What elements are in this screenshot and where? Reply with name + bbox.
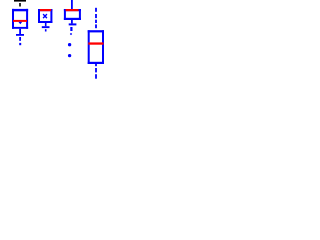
boxplot 3 flier dot low <box>68 54 71 57</box>
boxplot 3 lower cap <box>69 23 77 25</box>
boxplot 2 mean marker x (blue) <box>43 14 47 18</box>
boxplot 1 median (red) <box>13 20 27 22</box>
boxplot 3 box top edge (blue) <box>64 9 81 11</box>
boxplot 4 box edges (blue) <box>88 30 104 64</box>
boxplot 4 median (red) <box>88 42 103 44</box>
boxplot 2 lower whisker stem <box>45 23 47 26</box>
boxplot 4 upper whisker dashes (blue) <box>95 8 97 28</box>
boxplot 1 box fill <box>12 9 28 29</box>
boxplot 2 lower cap <box>42 26 50 28</box>
boxplot 1 lower cap (blue) <box>16 34 24 36</box>
boxplot 1 flier dash A <box>19 37 21 41</box>
boxplot 2 box fill <box>38 9 52 23</box>
boxplot 1 lower whisker stem (blue) <box>19 29 21 34</box>
boxplot 3 flier dot faint <box>70 33 72 35</box>
boxplot 4 lower whisker dashes (blue) <box>95 68 97 79</box>
boxplot 3 box sides and bottom (blue) <box>64 9 81 20</box>
boxplot 2 median over top edge (red) <box>40 9 51 11</box>
boxplot 3 median over top edge (red) <box>66 9 79 11</box>
boxplot 3 upper whisker (blue solid) <box>71 0 73 9</box>
boxplot 1 mean marker triangle (blue) <box>18 22 22 24</box>
boxplot 1 top cap (black) <box>14 0 26 2</box>
boxplot 1 box edges (blue) <box>12 9 28 29</box>
boxplot 3 box fill <box>64 9 81 20</box>
boxplot 3 flier dot mid <box>68 43 71 46</box>
boxplot 4 lower whisker stem <box>95 64 97 66</box>
boxplot 1 upper whisker dash (black) <box>19 3 21 7</box>
boxplot 3 flier dash <box>70 27 72 31</box>
boxplot 4 box fill <box>88 30 104 64</box>
boxplot 3 lower whisker stem <box>71 20 73 23</box>
boxplot 2 box top edge (blue) <box>38 9 52 11</box>
boxplot 1 flier dash B <box>19 43 21 45</box>
boxplot 2 flier dash <box>45 29 47 31</box>
boxplot 2 box sides and bottom (blue) <box>38 9 52 23</box>
